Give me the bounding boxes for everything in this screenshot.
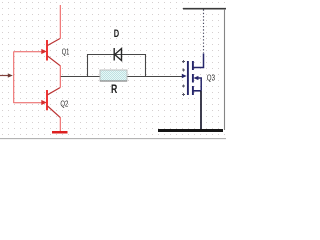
svg-text:Q1: Q1: [62, 48, 70, 57]
svg-text:Q3: Q3: [207, 74, 216, 83]
Q3 drain lead: [193, 53, 204, 67]
wire output node to gate (bottom branch): [60, 76, 183, 78]
diode D: [114, 48, 121, 61]
Q3 source lead: [193, 90, 201, 92]
transistor Q2: [14, 88, 61, 131]
transistor Q1: [14, 5, 61, 66]
Q3 channel dashes: [192, 61, 194, 95]
Q3 gate bar: [187, 61, 189, 95]
MOSFET Q3 gate arrowhead: [182, 74, 187, 79]
svg-text:D: D: [114, 28, 120, 40]
ground bar (red) under Q2: [52, 131, 68, 134]
drain dotted wire: [203, 10, 205, 54]
right edge vertical wire: [224, 9, 226, 130]
ground bar (black) bottom right: [158, 129, 223, 132]
wire parallel loop: [88, 55, 146, 78]
svg-text:R: R: [111, 83, 118, 96]
svg-text:Q2: Q2: [60, 100, 68, 109]
input wire with arrow: [0, 75, 8, 77]
source wire down: [200, 91, 202, 130]
left input vertical wire: [13, 52, 15, 104]
Q3 pin tick marks: [182, 60, 185, 96]
bottom faint border: [0, 138, 226, 140]
resistor R: [100, 70, 127, 81]
top rail: [183, 8, 226, 10]
node vertical (Q1 emitter / Q2 collector): [59, 66, 61, 88]
Q3 body arrow: [193, 76, 198, 80]
